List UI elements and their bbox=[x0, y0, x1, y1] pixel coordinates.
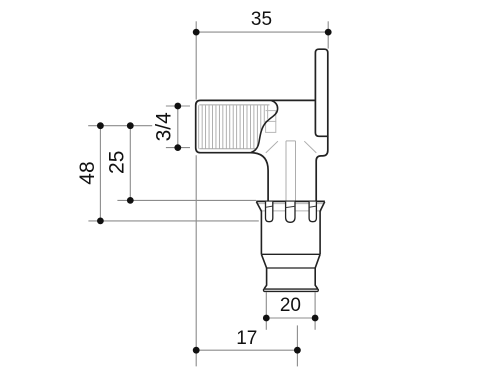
pipe axis reference line bbox=[88, 125, 152, 127]
tick 3/4 top bbox=[166, 105, 190, 107]
body + socket outline bbox=[196, 100, 316, 201]
svg-text:35: 35 bbox=[251, 9, 272, 30]
bore lines (vertical outlet inner bore) bbox=[266, 141, 317, 201]
thread crest boundary lines bbox=[199, 105, 269, 149]
dimension extension line left (x=196.2) bbox=[88, 21, 328, 366]
flange (wall plate) bbox=[315, 49, 327, 136]
bottom bead bbox=[264, 289, 319, 291]
slot window left bbox=[266, 202, 273, 222]
svg-text:17: 17 bbox=[236, 328, 257, 349]
dimension dots bbox=[97, 29, 332, 354]
sleeve crown gray back lines bbox=[257, 204, 324, 211]
svg-text:3/4: 3/4 bbox=[153, 112, 176, 142]
reference line slot bottom (y=220.9) bbox=[88, 220, 258, 222]
dimension line 3/4 vertical bbox=[177, 106, 179, 148]
body right side below flange bbox=[316, 136, 328, 201]
svg-text:48: 48 bbox=[76, 161, 99, 184]
dimension line 35 bbox=[196, 31, 328, 33]
cone sides bbox=[261, 254, 320, 268]
dimension line 48 vertical bbox=[99, 126, 101, 221]
cavity funnel diagonal right bbox=[304, 141, 316, 153]
slot window center bbox=[286, 202, 295, 223]
cone bottom line bbox=[267, 267, 316, 269]
dimension line 20 bbox=[266, 317, 315, 319]
reference line sleeve top (y=200.4) bbox=[117, 199, 256, 201]
sleeve left side bbox=[256, 202, 261, 255]
tick 3/4 bottom bbox=[166, 147, 190, 149]
internal step rectangles near thread end bbox=[266, 111, 276, 133]
thread end inner wall bbox=[251, 101, 278, 153]
sleeve right side bbox=[320, 202, 325, 255]
extension line 17 right (outlet axis) bbox=[296, 325, 298, 366]
20-cylinder sides bbox=[264, 268, 318, 289]
extension lines 20 bbox=[265, 292, 267, 330]
sleeve rim top bbox=[256, 200, 325, 202]
svg-text:25: 25 bbox=[105, 151, 128, 174]
dimension line 17 bbox=[196, 349, 297, 351]
dimension extension line right of 35 (x=328.2) bbox=[327, 21, 329, 48]
svg-text:20: 20 bbox=[280, 295, 301, 316]
dimension line 25 vertical bbox=[129, 126, 131, 201]
sleeve cone shoulder line bbox=[261, 253, 320, 255]
slot window right bbox=[309, 202, 316, 222]
cavity funnel diagonal left bbox=[266, 141, 278, 153]
